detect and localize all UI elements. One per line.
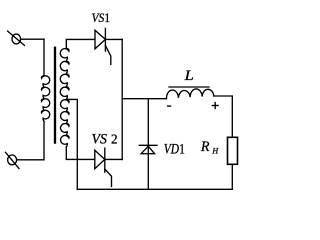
label plus xyxy=(212,103,218,109)
svg-text:VS: VS xyxy=(92,132,108,148)
transformer core xyxy=(54,48,56,143)
svg-text:VS1: VS1 xyxy=(92,11,111,25)
svg-text:VD1: VD1 xyxy=(164,141,185,157)
inductor L core bar xyxy=(169,86,209,88)
svg-text:L: L xyxy=(183,68,193,84)
wire secondary center tap to bottom rail xyxy=(66,99,77,189)
wire L to RH top xyxy=(214,96,232,137)
resistor RH xyxy=(228,137,238,164)
wire RH bottom to bottom rail xyxy=(231,164,233,189)
svg-text:2: 2 xyxy=(111,133,118,148)
terminal X2 (bottom-left AC input) xyxy=(6,152,20,168)
wire secondary bottom lead to VS2 xyxy=(66,147,94,159)
thyristor VS2 xyxy=(95,148,112,186)
wire output branch to L xyxy=(122,98,166,100)
wire bottom rail xyxy=(77,188,232,190)
wire VS2 cathode to right rail xyxy=(105,158,122,160)
wire primary bottom lead to X2 xyxy=(17,122,44,160)
wire primary top lead xyxy=(43,39,45,75)
wire VS1 cathode to right rail corner xyxy=(105,38,122,40)
thyristor VS1 xyxy=(95,28,111,64)
transformer secondary winding lower half xyxy=(61,99,70,147)
transformer secondary winding upper half xyxy=(60,48,69,99)
diode VD1 xyxy=(139,99,157,190)
terminal X1 (top-left AC input) xyxy=(8,31,25,45)
transformer primary winding xyxy=(41,76,49,122)
inductor L xyxy=(166,89,213,99)
wire secondary top lead to top rail xyxy=(66,39,95,48)
wire from X1 to primary top xyxy=(21,38,44,40)
svg-text:R: R xyxy=(200,139,210,155)
label minus xyxy=(168,105,171,107)
wire right rail xyxy=(121,39,123,159)
svg-text:H: H xyxy=(211,145,219,155)
